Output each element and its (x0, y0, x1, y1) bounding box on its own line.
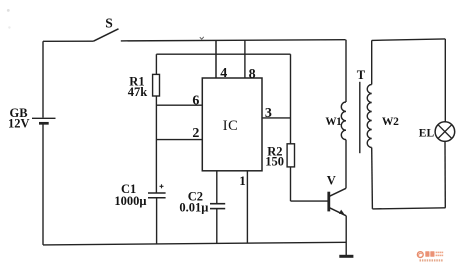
svg-text:8: 8 (249, 67, 256, 82)
svg-text:4: 4 (220, 66, 227, 81)
svg-text:12V: 12V (8, 116, 30, 130)
svg-text:150: 150 (265, 154, 284, 168)
svg-text:1000μ: 1000μ (114, 194, 146, 208)
svg-text:T: T (357, 68, 366, 82)
svg-text:47k: 47k (128, 85, 148, 99)
svg-text:V: V (327, 174, 336, 188)
svg-text:EL: EL (419, 128, 435, 140)
svg-text:S: S (105, 16, 113, 31)
svg-text:6: 6 (192, 94, 199, 109)
svg-text:1: 1 (239, 173, 246, 188)
svg-text:3: 3 (265, 106, 272, 121)
svg-text:W1: W1 (325, 116, 342, 128)
svg-text:0.01μ: 0.01μ (179, 201, 208, 215)
svg-text:2: 2 (192, 126, 199, 141)
svg-text:W2: W2 (382, 116, 399, 128)
svg-text:IC: IC (223, 118, 239, 134)
